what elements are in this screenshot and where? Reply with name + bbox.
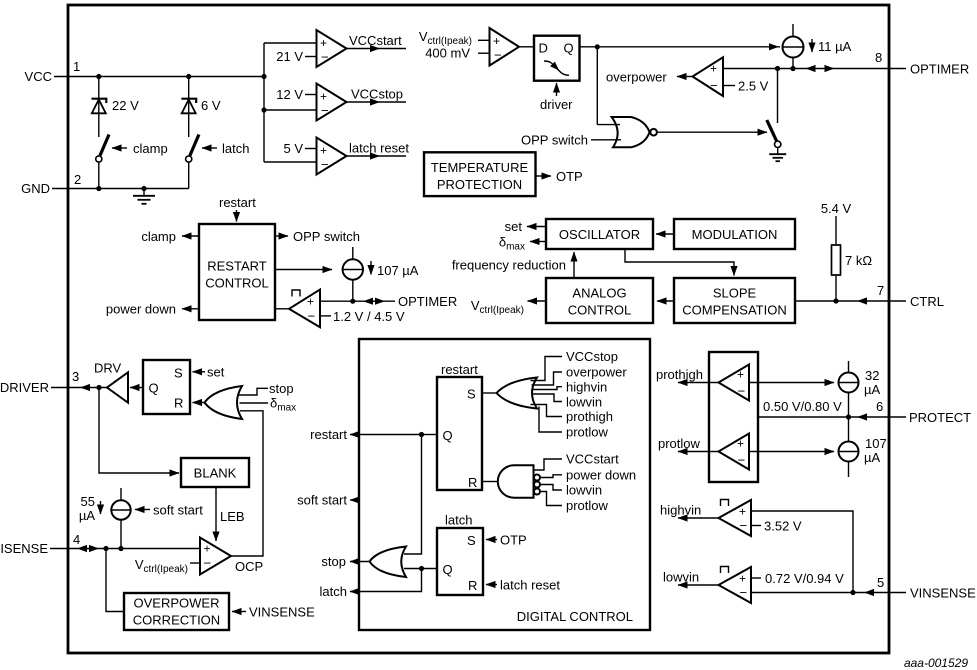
node restart Q xyxy=(404,432,437,554)
comparator overpower 2.5 V xyxy=(606,57,769,96)
svg-text:restart: restart xyxy=(219,195,256,210)
svg-text:Q: Q xyxy=(443,428,453,443)
svg-text:3.52 V: 3.52 V xyxy=(764,519,802,534)
svg-text:frequency reduction: frequency reduction xyxy=(452,258,566,273)
wire OCP feedback to OR xyxy=(231,411,263,556)
driver label arrow xyxy=(540,83,573,112)
svg-text:11 µA: 11 µA xyxy=(818,39,852,54)
svg-text:+: + xyxy=(737,368,744,382)
svg-text:12 V: 12 V xyxy=(276,87,303,102)
node GND-ground xyxy=(141,186,146,191)
flip-flop DRV SR xyxy=(143,360,190,414)
wire lowvin input xyxy=(532,394,603,410)
svg-text:OSCILLATOR: OSCILLATOR xyxy=(559,227,640,242)
svg-text:−: − xyxy=(710,78,718,93)
svg-text:lowvin: lowvin xyxy=(566,483,602,498)
svg-text:PROTECTION: PROTECTION xyxy=(437,177,522,192)
comparator prothigh xyxy=(719,365,750,401)
current source 107 uA xyxy=(343,247,419,301)
svg-text:CTRL: CTRL xyxy=(910,294,944,309)
wire protlow input xyxy=(539,407,609,440)
svg-text:stop: stop xyxy=(321,554,346,569)
svg-text:1.2 V / 4.5 V: 1.2 V / 4.5 V xyxy=(333,309,405,324)
zener diode 6 V xyxy=(181,77,220,138)
svg-text:highvin: highvin xyxy=(566,380,607,395)
svg-text:R: R xyxy=(174,396,183,411)
svg-text:GND: GND xyxy=(21,181,50,196)
zener diode 22 V xyxy=(92,77,140,138)
wire highvin input xyxy=(532,380,608,395)
svg-text:+: + xyxy=(204,542,211,556)
PROTECT comparators box xyxy=(709,352,758,482)
OTP input arrow xyxy=(486,533,527,548)
svg-text:prothigh: prothigh xyxy=(656,367,703,382)
svg-text:−: − xyxy=(321,50,329,65)
svg-text:5 V: 5 V xyxy=(283,141,303,156)
svg-text:ISENSE: ISENSE xyxy=(0,541,48,556)
svg-text:−: − xyxy=(321,103,329,118)
wire Q output to 11uA current source xyxy=(580,43,781,50)
protlow output arrow xyxy=(658,436,719,452)
svg-text:latch: latch xyxy=(222,141,249,156)
wire VCCstart input xyxy=(534,452,620,471)
svg-text:−: − xyxy=(494,48,502,63)
svg-text:soft start: soft start xyxy=(153,503,203,518)
svg-text:21 V: 21 V xyxy=(276,49,303,64)
DIGITAL CONTROL box xyxy=(359,339,650,630)
current source 55 uA soft start xyxy=(79,488,131,549)
svg-text:VCCstop: VCCstop xyxy=(351,87,403,102)
svg-text:power down: power down xyxy=(566,468,636,483)
wire VCC sense bracket xyxy=(261,43,316,162)
svg-text:0.72 V/0.94 V: 0.72 V/0.94 V xyxy=(765,571,844,586)
svg-text:MODULATION: MODULATION xyxy=(692,227,778,242)
TEMPERATURE PROTECTION box xyxy=(424,152,536,196)
flip-flop latch SR xyxy=(437,513,483,596)
svg-text:2.5 V: 2.5 V xyxy=(738,79,769,94)
wire VCCstart output xyxy=(347,33,407,52)
Vctrl(Ipeak) output arrow xyxy=(471,298,546,316)
svg-text:protlow: protlow xyxy=(658,436,701,451)
svg-text:clamp: clamp xyxy=(141,229,176,244)
svg-text:7 kΩ: 7 kΩ xyxy=(845,253,872,268)
svg-text:soft start: soft start xyxy=(297,493,347,508)
soft start input arrow xyxy=(135,503,203,518)
power down output arrow xyxy=(106,302,199,317)
pin 6 PROTECT xyxy=(758,399,971,425)
node OPTIMER junction xyxy=(350,299,355,304)
svg-text:Q: Q xyxy=(443,562,453,577)
svg-text:VCC: VCC xyxy=(25,69,52,84)
svg-text:latch reset: latch reset xyxy=(349,141,409,156)
node latch Q xyxy=(404,566,437,571)
svg-text:µA: µA xyxy=(79,508,95,523)
wire MODULATION to OSCILLATOR xyxy=(656,233,674,235)
comparator lowvin xyxy=(719,567,752,604)
wire overpower input xyxy=(532,365,628,386)
comparator 1.2 V / 4.5 V xyxy=(275,290,405,328)
svg-text:BLANK: BLANK xyxy=(194,466,237,481)
comparator OCP xyxy=(135,538,263,576)
pin 2 GND label xyxy=(21,172,81,196)
current source 32 uA xyxy=(839,361,881,417)
svg-text:restart: restart xyxy=(310,427,347,442)
VINSENSE input arrow xyxy=(232,605,315,620)
svg-text:VINSENSE: VINSENSE xyxy=(910,586,976,601)
wire latch reset output xyxy=(347,141,410,160)
wire power down input xyxy=(540,468,636,483)
svg-text:OCP: OCP xyxy=(235,559,263,574)
RESTART CONTROL box xyxy=(199,224,275,320)
node VCC-D1 xyxy=(96,74,101,79)
svg-text:+: + xyxy=(739,572,746,586)
svg-text:5.4 V: 5.4 V xyxy=(821,201,852,216)
svg-text:−: − xyxy=(740,518,748,533)
node VCC-bracket xyxy=(261,74,266,79)
comparator 12 V (VCCstop) xyxy=(276,84,346,121)
svg-text:OTP: OTP xyxy=(556,169,583,184)
highvin output arrow xyxy=(660,503,719,519)
svg-text:latch: latch xyxy=(445,513,472,528)
svg-text:LEB: LEB xyxy=(220,509,245,524)
svg-text:clamp: clamp xyxy=(133,141,168,156)
BLANK box xyxy=(181,458,249,487)
pin 5 VINSENSE xyxy=(751,575,976,601)
current source 107 uA PROTECT xyxy=(839,417,887,477)
delta max output arrow xyxy=(499,235,546,253)
switch clamp xyxy=(96,135,168,189)
svg-text:CONTROL: CONTROL xyxy=(568,303,632,318)
svg-text:400 mV: 400 mV xyxy=(425,46,470,61)
pin 7 CTRL xyxy=(795,283,944,309)
svg-text:protlow: protlow xyxy=(566,498,609,513)
pin 8 OPTIMER xyxy=(723,50,969,77)
svg-text:3: 3 xyxy=(72,369,79,384)
prothigh output arrow xyxy=(656,367,719,383)
svg-text:overpower: overpower xyxy=(566,365,627,380)
node GND-clamp xyxy=(96,186,101,191)
wire LEB xyxy=(216,487,245,541)
wire VCC rail xyxy=(54,76,264,78)
svg-text:D: D xyxy=(539,41,548,56)
svg-text:S: S xyxy=(467,533,476,548)
svg-text:−: − xyxy=(740,585,748,600)
flip-flop restart SR xyxy=(437,362,482,490)
svg-text:Q: Q xyxy=(564,41,574,56)
svg-text:prothigh: prothigh xyxy=(566,409,613,424)
wire protlow to 107uA xyxy=(749,451,834,453)
svg-text:stop: stop xyxy=(269,381,294,396)
svg-text:+: + xyxy=(493,34,500,48)
svg-text:+: + xyxy=(739,505,746,519)
set input arrow xyxy=(193,365,225,380)
svg-text:107: 107 xyxy=(865,436,887,451)
svg-text:PROTECT: PROTECT xyxy=(909,410,971,425)
wire highvin sense xyxy=(751,511,853,593)
pin 3 DRIVER xyxy=(0,369,107,395)
svg-text:set: set xyxy=(505,219,523,234)
svg-text:−: − xyxy=(308,309,316,324)
svg-text:+: + xyxy=(320,36,327,50)
wire prothigh input xyxy=(531,405,613,425)
pin 1 VCC label xyxy=(25,59,81,84)
svg-text:µA: µA xyxy=(864,382,880,397)
AND gate restart reset xyxy=(482,465,540,497)
svg-text:latch reset: latch reset xyxy=(500,578,560,593)
svg-text:SLOPE: SLOPE xyxy=(713,286,757,301)
svg-text:32: 32 xyxy=(865,368,879,383)
svg-text:OPP switch: OPP switch xyxy=(521,133,588,148)
svg-text:lowvin: lowvin xyxy=(566,395,602,410)
svg-text:latch: latch xyxy=(320,584,347,599)
svg-text:restart: restart xyxy=(441,362,478,377)
clamp output arrow xyxy=(141,229,199,244)
0.72 V/0.94 V reference xyxy=(751,571,844,586)
OR gate stop xyxy=(370,547,407,578)
3.52 V reference xyxy=(751,519,802,534)
svg-text:+: + xyxy=(320,144,327,158)
wire lowvin reset input xyxy=(540,483,602,498)
svg-text:OTP: OTP xyxy=(500,533,527,548)
comparator 21 V (VCCstart) xyxy=(276,30,346,67)
svg-text:VINSENSE: VINSENSE xyxy=(249,605,315,620)
node VCC-D2 xyxy=(186,74,191,79)
current source 11 uA xyxy=(783,24,852,69)
wire DRV node to BLANK xyxy=(99,388,179,474)
stop output arrow xyxy=(321,554,369,569)
svg-text:OVERPOWER: OVERPOWER xyxy=(134,596,220,611)
svg-text:TEMPERATURE: TEMPERATURE xyxy=(431,160,529,175)
svg-text:Q: Q xyxy=(149,381,159,396)
svg-text:+: + xyxy=(320,90,327,104)
OPP switch output arrow xyxy=(275,229,360,244)
svg-text:−: − xyxy=(738,453,746,468)
wire NOR output to switch xyxy=(657,131,767,133)
svg-text:aaa-001529: aaa-001529 xyxy=(904,656,968,670)
wire OPTIMER junction xyxy=(320,294,457,309)
lowvin output arrow xyxy=(663,570,719,586)
switch overpower timer xyxy=(767,69,781,148)
svg-text:RESTART: RESTART xyxy=(207,259,267,274)
ground below switch xyxy=(769,148,786,162)
svg-text:VCCstop: VCCstop xyxy=(566,349,618,364)
svg-text:+: + xyxy=(737,437,744,451)
5.4 V supply and 7 kOhm resistor xyxy=(821,201,873,301)
wire to 107uA current source xyxy=(275,269,332,271)
svg-text:set: set xyxy=(207,365,225,380)
wire Q to DRV xyxy=(130,387,143,389)
buffer DRV xyxy=(94,361,128,403)
wire VCCstop output xyxy=(347,87,407,106)
comparator Vctrl(Ipeak)/400mV xyxy=(419,28,519,66)
svg-text:COMPENSATION: COMPENSATION xyxy=(682,303,787,318)
latch reset input arrow xyxy=(486,578,560,593)
svg-text:lowvin: lowvin xyxy=(663,570,699,585)
svg-text:S: S xyxy=(467,387,476,402)
wire OSCILLATOR to SLOPE COMPENSATION xyxy=(625,249,734,276)
wire prothigh to 32uA xyxy=(749,382,834,384)
OVERPOWER CORRECTION box xyxy=(124,593,229,630)
NOR gate OPP xyxy=(521,47,657,148)
svg-text:1: 1 xyxy=(73,59,80,74)
OR gate restart set xyxy=(482,378,537,409)
ground symbol at GND rail xyxy=(133,189,155,204)
svg-text:S: S xyxy=(174,366,183,381)
svg-text:6 V: 6 V xyxy=(201,98,221,113)
OSCILLATOR box xyxy=(546,219,653,249)
svg-text:DRV: DRV xyxy=(94,361,122,376)
svg-text:8: 8 xyxy=(875,50,882,65)
restart input arrow xyxy=(219,195,256,222)
svg-text:−: − xyxy=(738,384,746,399)
svg-text:power down: power down xyxy=(106,302,176,317)
svg-text:protlow: protlow xyxy=(566,425,609,440)
comparator protlow xyxy=(719,434,750,470)
wire protlow reset input xyxy=(540,492,609,514)
svg-text:highvin: highvin xyxy=(660,503,701,518)
svg-text:CORRECTION: CORRECTION xyxy=(133,613,220,628)
svg-text:−: − xyxy=(204,556,212,571)
ANALOG CONTROL box xyxy=(546,278,653,323)
set output arrow xyxy=(505,219,546,234)
wire SLOPE to ANALOG CONTROL xyxy=(657,300,674,302)
frequency reduction arrow xyxy=(452,252,574,278)
MODULATION box xyxy=(674,219,795,249)
SLOPE COMPENSATION box xyxy=(674,278,795,323)
switch latch xyxy=(186,135,250,189)
restart output arrow xyxy=(310,427,421,442)
svg-text:107 µA: 107 µA xyxy=(377,263,419,278)
wire OTP output xyxy=(536,169,583,184)
OR gate DRV reset xyxy=(193,386,243,419)
wire comparator to driver flip-flop xyxy=(519,46,534,48)
svg-text:µA: µA xyxy=(864,450,880,465)
svg-text:CONTROL: CONTROL xyxy=(205,276,269,291)
svg-text:ANALOG: ANALOG xyxy=(572,286,626,301)
delta max input to OR xyxy=(240,396,297,414)
svg-text:−: − xyxy=(321,157,329,172)
svg-text:0.50 V/0.80 V: 0.50 V/0.80 V xyxy=(763,399,842,414)
svg-text:DIGITAL CONTROL: DIGITAL CONTROL xyxy=(517,609,633,624)
svg-text:OPTIMER: OPTIMER xyxy=(398,294,457,309)
svg-text:R: R xyxy=(468,578,477,593)
svg-text:driver: driver xyxy=(540,97,573,112)
svg-text:2: 2 xyxy=(74,172,81,187)
svg-text:7: 7 xyxy=(877,283,884,298)
stop input to OR xyxy=(238,381,294,396)
svg-text:+: + xyxy=(307,295,314,309)
svg-text:VCCstart: VCCstart xyxy=(566,452,619,467)
comparator highvin xyxy=(719,500,752,537)
svg-text:VCCstart: VCCstart xyxy=(349,33,402,48)
wire ISENSE to OVERPOWER CORRECTION xyxy=(106,549,124,612)
svg-text:6: 6 xyxy=(876,399,883,414)
svg-text:22 V: 22 V xyxy=(112,98,139,113)
svg-text:DRIVER: DRIVER xyxy=(0,380,49,395)
svg-text:4: 4 xyxy=(73,532,80,547)
svg-text:+: + xyxy=(710,62,717,76)
driver D/Q one-shot box xyxy=(534,36,580,81)
svg-text:55: 55 xyxy=(81,494,95,509)
svg-text:R: R xyxy=(468,475,477,490)
wire VCCstop input xyxy=(531,349,619,381)
wire GND rail xyxy=(52,188,189,190)
pin 4 ISENSE xyxy=(0,532,200,556)
svg-text:overpower: overpower xyxy=(606,70,667,85)
latch output arrow xyxy=(320,569,422,600)
svg-text:OPP switch: OPP switch xyxy=(293,229,360,244)
soft start output arrow xyxy=(297,493,360,508)
comparator 5 V (latch reset) xyxy=(283,138,346,175)
svg-text:OPTIMER: OPTIMER xyxy=(910,62,969,77)
svg-text:5: 5 xyxy=(877,575,884,590)
